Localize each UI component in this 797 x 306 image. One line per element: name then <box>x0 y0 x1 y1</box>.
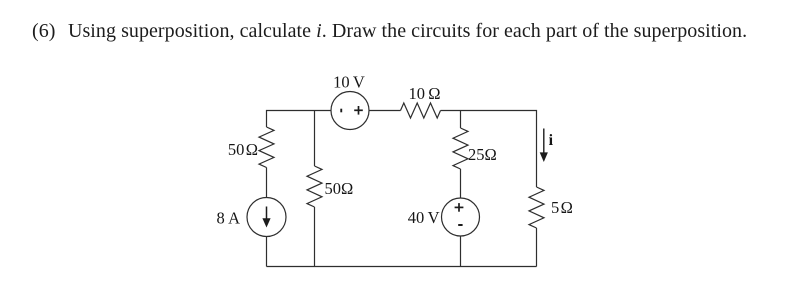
wire left mid <box>266 168 268 198</box>
svg-text:50Ω: 50Ω <box>325 179 354 198</box>
voltage source 10V <box>331 92 369 130</box>
resistor 25 ohm <box>453 128 468 169</box>
svg-text:8 A: 8 A <box>217 209 241 228</box>
resistor 50 ohm left <box>259 127 274 168</box>
wire middle branch top <box>314 111 316 167</box>
wire right bottom <box>536 228 538 267</box>
problem statement text <box>32 21 747 41</box>
minus mark of 10V <box>340 109 342 113</box>
svg-text:10 Ω: 10 Ω <box>408 84 440 103</box>
svg-text:i: i <box>549 132 554 149</box>
current arrow i <box>540 129 548 163</box>
plus mark of 10V <box>354 106 363 115</box>
svg-text:5 Ω: 5 Ω <box>551 198 573 217</box>
current source 8A <box>247 198 286 237</box>
resistor 50 ohm middle <box>307 166 322 207</box>
wire 25-ohm to 40V source <box>460 169 462 198</box>
wire 10V source to 10-ohm resistor <box>369 110 401 112</box>
arrow of 8A source <box>262 207 270 228</box>
svg-text:40 V: 40 V <box>408 208 440 227</box>
svg-text:10 V: 10 V <box>333 73 365 92</box>
wire bottom rail <box>267 266 537 268</box>
minus mark of 40V <box>458 224 462 226</box>
wire 10-ohm resistor to top-right corner <box>441 111 537 188</box>
resistor 5 ohm right <box>529 187 544 228</box>
svg-text:50 Ω: 50 Ω <box>228 140 258 159</box>
resistor 10 ohm top <box>401 103 441 118</box>
voltage source 40V <box>442 198 480 236</box>
wire 40V to bottom <box>460 236 462 267</box>
plus mark of 40V <box>455 203 464 212</box>
wire middle branch bottom <box>314 207 316 267</box>
wire 25-ohm branch top <box>460 111 462 129</box>
svg-text:25Ω: 25Ω <box>468 145 497 164</box>
wire left bottom <box>266 237 268 267</box>
wire top-left segment <box>267 111 332 128</box>
